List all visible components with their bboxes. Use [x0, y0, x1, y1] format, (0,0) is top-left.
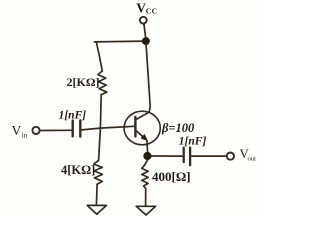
- svg-text:β=100: β=100: [161, 121, 195, 135]
- svg-text:out: out: [248, 156, 257, 163]
- wire input capacitor to base: [82, 126, 135, 130]
- transistor Q1 collector lead: [136, 45, 150, 120]
- node collector-rail junction: [142, 37, 150, 45]
- wire Vcc terminal to collector node: [144, 24, 146, 37]
- wire Vin to input capacitor: [40, 129, 71, 131]
- svg-text:4[KΩ]: 4[KΩ]: [61, 163, 95, 177]
- svg-text:1[nF]: 1[nF]: [59, 110, 87, 122]
- wire emitter to 400 ohm resistor: [145, 160, 148, 165]
- svg-text:400[Ω]: 400[Ω]: [152, 169, 191, 184]
- resistor R2 4[KOhm] zigzag: [94, 160, 103, 184]
- wire 400 ohm to ground: [145, 188, 147, 206]
- node emitter junction: [143, 152, 151, 160]
- wire top horizontal to 2K branch: [94, 40, 146, 43]
- Vcc terminal circle: [140, 17, 147, 24]
- Vin terminal circle: [32, 127, 39, 134]
- svg-text:V: V: [136, 0, 146, 15]
- transistor Q1 body circle: [124, 111, 160, 145]
- svg-text:1[nF]: 1[nF]: [179, 135, 207, 147]
- svg-text:2[KΩ]: 2[KΩ]: [67, 75, 100, 89]
- transistor Q1 base bar: [134, 117, 136, 136]
- transistor Q1 emitter lead with arrow: [136, 130, 144, 137]
- capacitor C2 1[nF] output plates: [183, 148, 185, 162]
- ground (right): [136, 206, 155, 215]
- wire emitter to output capacitor: [152, 155, 183, 157]
- ground (left): [87, 205, 106, 214]
- wire 2K lower lead down across input wire: [99, 95, 102, 161]
- wire 4K lower lead to ground: [95, 184, 98, 205]
- svg-text:V: V: [12, 123, 22, 138]
- capacitor C1 1[nF] input plates: [71, 121, 73, 137]
- Vout terminal circle: [227, 153, 234, 160]
- svg-text:CC: CC: [146, 7, 158, 16]
- wire 2K upper lead: [96, 42, 102, 71]
- wire output capacitor to Vout: [191, 155, 226, 157]
- resistor R3 400[Ohm] zigzag: [142, 165, 149, 188]
- resistor R1 2[KOhm] zigzag: [98, 71, 107, 95]
- svg-text:in: in: [22, 131, 28, 139]
